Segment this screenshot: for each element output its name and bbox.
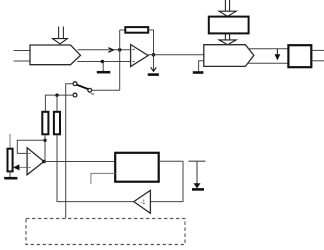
svg-text:-1: -1: [140, 200, 146, 206]
switch throw contact S1: [73, 82, 77, 86]
current arrow into U2 input: [13, 164, 19, 170]
node U1 output junction: [152, 53, 156, 57]
wire R3 bottom: [9, 171, 11, 177]
ground symbol G1: [97, 62, 111, 73]
ground symbol G5: [4, 177, 17, 180]
wire R2 bottom to inverter output: [57, 134, 134, 201]
wire U1 output to A2: [148, 54, 204, 56]
wire junction down to R2: [56, 95, 58, 112]
block B1 (integrator box): [115, 153, 159, 182]
wire R3 top stub: [9, 134, 11, 149]
op-amp U2: [27, 148, 44, 175]
block B2 (control box): [209, 17, 249, 34]
block A1 (pointed sample block): [30, 45, 81, 65]
wire U2 feedback loop: [17, 140, 45, 153]
transfer arrow between output wires: [275, 49, 281, 61]
wire input line 1: [14, 50, 30, 52]
wire U2 output to B1: [44, 161, 115, 163]
node junction at ground tap: [101, 60, 105, 64]
switch pole contact S3: [88, 88, 92, 92]
dashed external block: [26, 219, 185, 245]
wire A2 upper output to B3: [248, 48, 288, 50]
inverter U3 (gain -1, points left): [134, 190, 151, 213]
wire arrow to U2 minus input: [19, 166, 30, 168]
op-amp U1: [131, 45, 149, 67]
control double-arrow into A1: [53, 27, 68, 45]
control double-arrow into B2 from top: [219, 0, 236, 16]
wire B3 output 1: [311, 49, 324, 51]
node junction at U1 input: [118, 48, 122, 52]
resistor R1 (vertical): [42, 112, 48, 135]
node feedback tee: [43, 139, 46, 142]
block A2 (pointed converter block): [204, 45, 254, 67]
U1 input polarity marks: [133, 49, 135, 62]
node U2 output junction: [42, 160, 46, 164]
wire input line 2: [14, 60, 30, 62]
node junction at R2 top: [55, 94, 58, 97]
switch lever: [77, 85, 88, 89]
resistor R4 (feedback): [125, 27, 148, 33]
wire feedback left riser: [119, 30, 121, 90]
resistor R2 (vertical): [54, 112, 60, 135]
wire B1 second input with stub: [91, 173, 115, 183]
signal-direction arrowhead on wire: [108, 48, 113, 53]
wire B1 output loop to inverter input: [150, 161, 183, 201]
ground symbol G4: [193, 61, 204, 73]
wire S1 down to dashed block: [66, 84, 73, 219]
wire A2 lower output to B3: [247, 62, 288, 64]
control double-arrow B2 to A2: [219, 33, 236, 44]
discharge arrow symbol G3: [189, 161, 206, 189]
wire A1 lower output to U1 minus input: [77, 61, 130, 63]
resistor R3 (vertical): [8, 149, 13, 172]
wire B3 output 2: [311, 60, 324, 62]
wire A1 upper output to U1: [78, 49, 131, 51]
wire resistor R4 right to output node: [148, 30, 153, 55]
ground arrow symbol G2: [148, 55, 159, 75]
wire R1 bottom to U2 output node: [44, 134, 46, 161]
U2 input pin marks: [28, 153, 31, 167]
wire S3 to U1 input riser: [92, 89, 120, 91]
switch label dash: [91, 93, 95, 95]
switch throw contact S2: [73, 93, 77, 97]
wire to resistor R4 left: [120, 29, 126, 31]
wire S2 to divider resistors: [45, 95, 73, 112]
block B3 (output register): [288, 45, 311, 67]
